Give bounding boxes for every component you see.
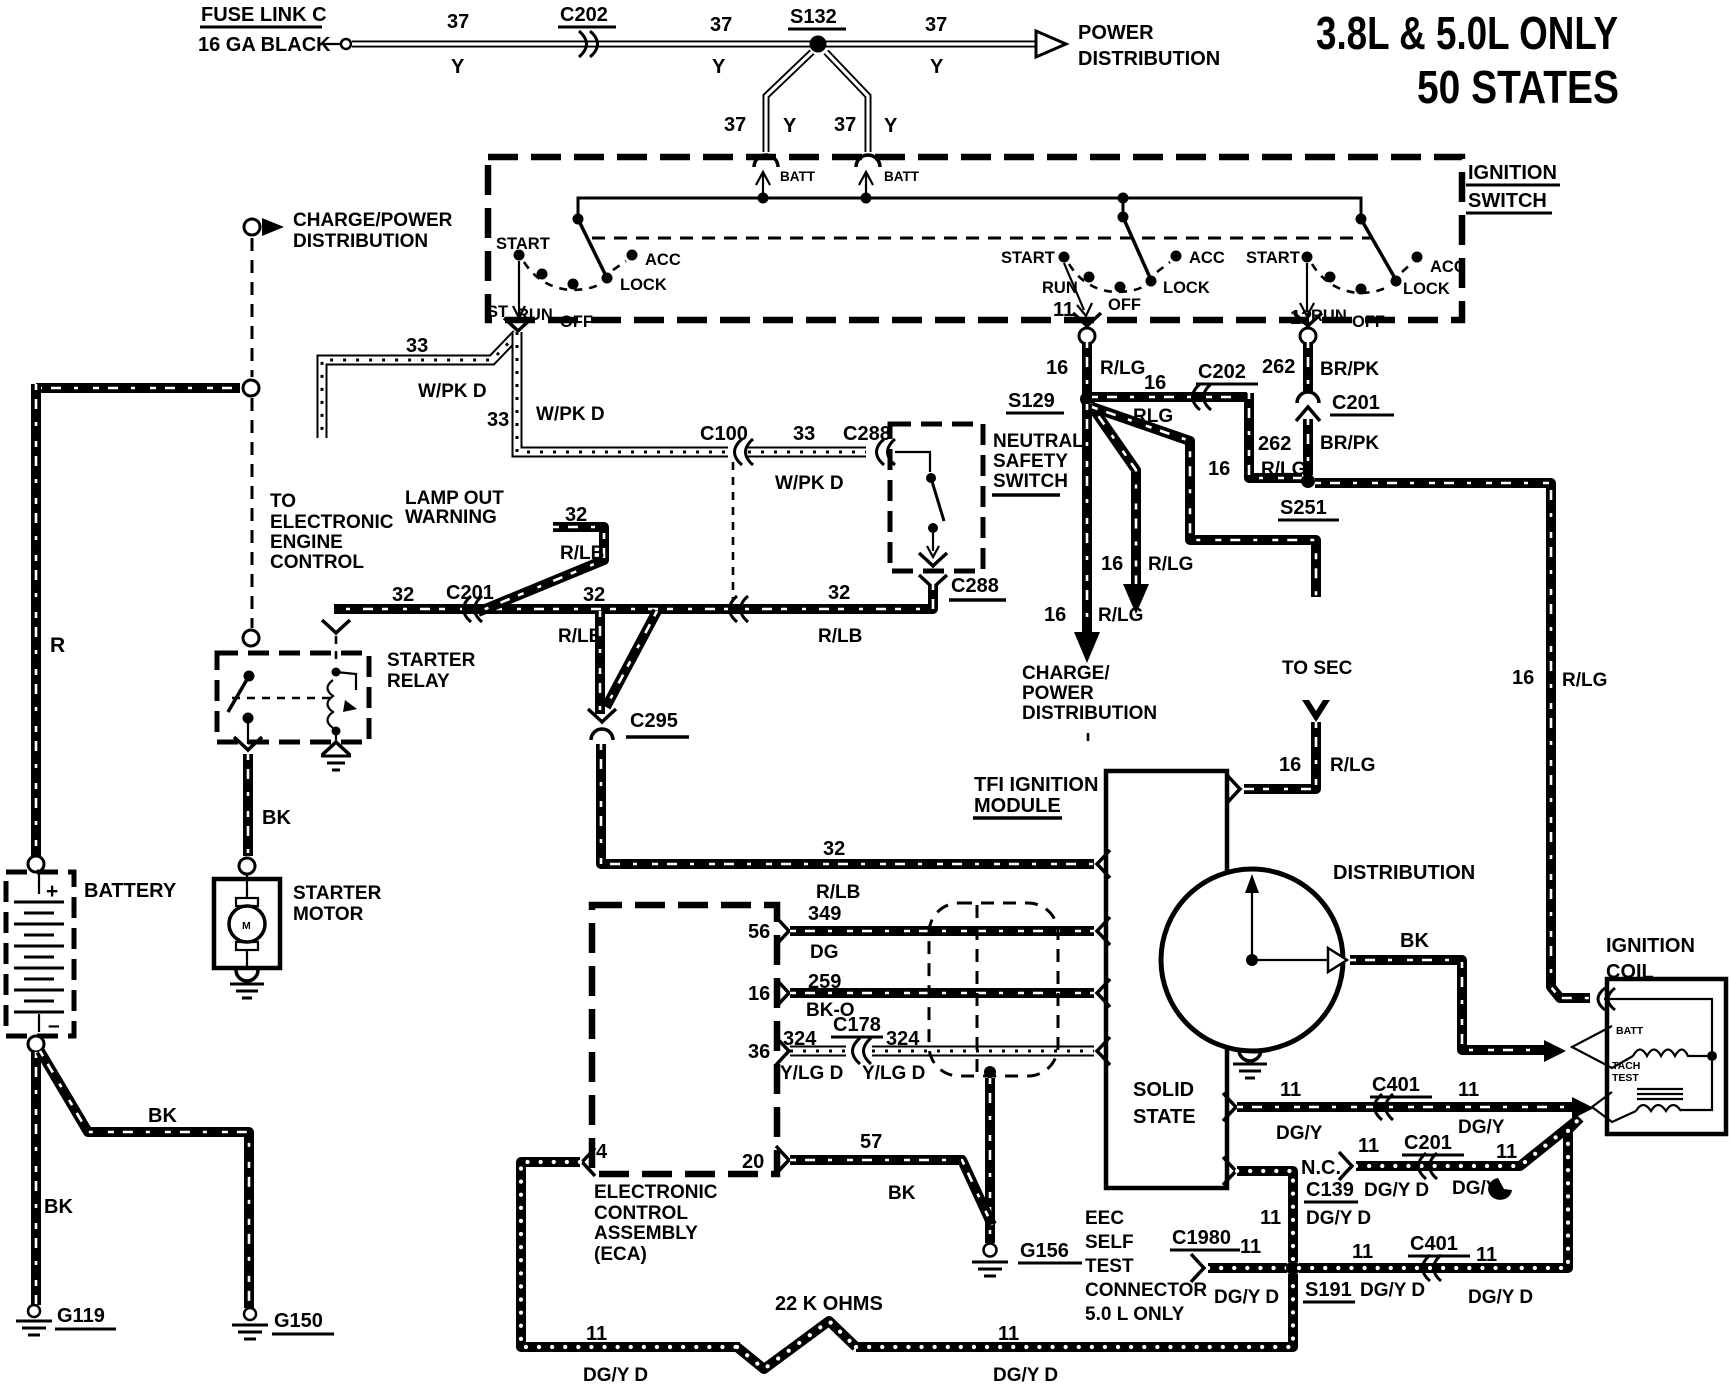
svg-text:ASSEMBLY: ASSEMBLY (594, 1223, 698, 1244)
relay ground (321, 735, 351, 770)
wire 57 BK (776, 1146, 992, 1225)
resistor 22 K OHMS (737, 1321, 856, 1369)
svg-text:+: + (46, 880, 58, 903)
dashed wire to charge/power (251, 238, 254, 377)
relay switch upper contact (244, 671, 255, 682)
neutral safety switch contacts (895, 452, 944, 557)
svg-text:W/PK D: W/PK D (775, 473, 844, 494)
svg-text:R/LG: R/LG (1330, 755, 1375, 776)
wire BK distributor to coil (1350, 960, 1544, 1050)
splice S132 (788, 6, 846, 53)
wire 349 DG (776, 917, 1110, 945)
switch 2 dashed arc (1069, 262, 1170, 292)
wire 33 W/PK D down branch (517, 332, 728, 452)
svg-text:33: 33 (793, 423, 815, 445)
connector C100 (700, 423, 753, 465)
wire 37 Y S132 to BATT right (826, 52, 868, 152)
switch 2 contacts (1059, 251, 1182, 293)
svg-text:M: M (242, 920, 251, 932)
svg-text:IGNITION: IGNITION (1468, 162, 1557, 184)
ground G156 (972, 1244, 1008, 1277)
arrow BK into coil (1544, 1040, 1566, 1062)
connector under switch 2 (1073, 313, 1101, 344)
coil secondary winding (1636, 1105, 1681, 1111)
svg-text:RUN: RUN (1042, 279, 1078, 297)
wire 324 Y/LG D left (776, 1037, 846, 1065)
svg-text:ACC: ACC (1430, 258, 1466, 276)
svg-text:11: 11 (586, 1323, 607, 1345)
svg-text:TFI IGNITION: TFI IGNITION (974, 774, 1098, 796)
wire 37 Y fuse link to power distribution (352, 41, 1038, 48)
svg-text:SELF: SELF (1085, 1232, 1134, 1253)
svg-text:C201: C201 (446, 582, 494, 604)
svg-text:STATE: STATE (1133, 1106, 1196, 1128)
switch 2 START wire (1064, 263, 1092, 316)
svg-text:32: 32 (823, 838, 845, 860)
arrow down to charge power distribution (1074, 632, 1100, 663)
svg-text:NEUTRAL: NEUTRAL (993, 431, 1084, 452)
starter motor box (214, 879, 280, 968)
TFI ignition module box (1106, 771, 1227, 1188)
switch 1 START wire to ST (513, 261, 525, 318)
svg-text:C295: C295 (630, 710, 678, 732)
svg-text:POWER: POWER (1022, 683, 1094, 704)
wire BK relay to starter motor (243, 754, 253, 856)
svg-text:MODULE: MODULE (974, 795, 1061, 817)
svg-text:11: 11 (1358, 1135, 1379, 1157)
svg-text:262: 262 (1258, 433, 1291, 455)
svg-text:FUSE LINK C: FUSE LINK C (201, 4, 327, 26)
svg-text:DISTRIBUTION: DISTRIBUTION (1022, 703, 1157, 724)
svg-text:16: 16 (1101, 553, 1123, 575)
svg-text:259: 259 (808, 971, 841, 993)
svg-text:WARNING: WARNING (405, 507, 497, 528)
svg-text:BK: BK (888, 1183, 916, 1204)
label CHARGE/POWER DISTRIBUTION (293, 210, 453, 252)
svg-text:16: 16 (1046, 357, 1068, 379)
svg-text:349: 349 (808, 903, 841, 925)
svg-text:5.0 L ONLY: 5.0 L ONLY (1085, 1304, 1185, 1325)
wire 16 R/LG S251 to ignition coil (1315, 483, 1590, 998)
label C139 (1304, 1179, 1358, 1202)
ignition coil box (1607, 979, 1726, 1134)
label POWER DISTRIBUTION (1078, 22, 1220, 70)
connector C288 below switch (919, 553, 1006, 600)
wire 11 DG/Y solid state to coil (1237, 1102, 1574, 1112)
connector wire 32 to relay (322, 620, 350, 666)
distributor ground (1233, 1050, 1267, 1078)
svg-text:R/LB: R/LB (816, 882, 860, 903)
label TO ELECTRONIC ENGINE CONTROL (270, 491, 394, 573)
label STARTER MOTOR (293, 883, 382, 925)
svg-text:37: 37 (447, 11, 469, 33)
wire R vertical (31, 384, 41, 856)
label IGNITION SWITCH (1466, 162, 1560, 213)
connector under switch 3 (1294, 313, 1322, 344)
wire 16 R/LG from ignition switch 11 (1082, 342, 1092, 394)
svg-text:BK: BK (148, 1105, 177, 1127)
svg-text:DISTRIBUTION: DISTRIBUTION (1078, 48, 1220, 70)
svg-text:EEC: EEC (1085, 1208, 1124, 1229)
svg-text:Y: Y (451, 56, 465, 78)
svg-text:33: 33 (487, 409, 509, 431)
svg-text:MOTOR: MOTOR (293, 904, 364, 925)
svg-text:CHARGE/: CHARGE/ (1022, 663, 1110, 684)
svg-text:DG/Y D: DG/Y D (1306, 1208, 1371, 1229)
svg-text:R/LB: R/LB (818, 626, 862, 647)
connector at BATT right (856, 155, 880, 167)
wire 16 R/LG C202 to S251 (1249, 393, 1302, 478)
switch 3 START wire (1300, 263, 1314, 316)
connector C201 (446, 582, 494, 622)
coil primary winding (1633, 1050, 1707, 1057)
wire 11 DG/Y D S191 to coil (1299, 1118, 1580, 1268)
svg-text:R/LG: R/LG (1100, 358, 1145, 379)
switch 3 pivot (1356, 214, 1367, 225)
svg-text:BATT: BATT (780, 169, 816, 184)
connector relay output (234, 737, 262, 750)
svg-text:C288: C288 (843, 423, 891, 445)
wire 37 Y S132 to BATT left (766, 52, 812, 152)
wire 32 to C295 (595, 611, 605, 714)
wire BK to G156 (985, 1078, 995, 1243)
svg-text:BATTERY: BATTERY (84, 880, 177, 902)
svg-text:11: 11 (1352, 1241, 1373, 1263)
svg-text:R: R (50, 634, 65, 657)
svg-text:(ECA): (ECA) (594, 1244, 647, 1265)
label CHARGE/POWER DISTRIBUTION (1022, 663, 1157, 746)
wire 16 R/LG S129 main down (1082, 404, 1092, 634)
svg-text:SOLID: SOLID (1133, 1079, 1194, 1101)
label SOLID STATE (1133, 1079, 1196, 1128)
battery box (6, 872, 74, 1036)
svg-text:TEST: TEST (1085, 1256, 1134, 1277)
connector C201 (1402, 1132, 1464, 1179)
svg-text:CONNECTOR: CONNECTOR (1085, 1280, 1207, 1301)
svg-text:START: START (1001, 249, 1055, 267)
svg-text:22 K OHMS: 22 K OHMS (775, 1293, 883, 1315)
wire 11 DG/Y D bottom right (856, 1274, 1293, 1347)
svg-text:DG/Y: DG/Y (1276, 1123, 1323, 1144)
svg-text:DG/Y D: DG/Y D (993, 1365, 1058, 1386)
title 3.8L and 5.0L ONLY 50 STATES (1316, 7, 1619, 113)
svg-text:TO SEC: TO SEC (1282, 658, 1353, 679)
svg-text:R/LB: R/LB (560, 543, 604, 564)
svg-text:DG/Y D: DG/Y D (1214, 1287, 1279, 1308)
svg-text:DG/Y: DG/Y (1458, 1117, 1505, 1138)
wire 259 BK-O (776, 979, 1110, 1007)
distributor rotor hands (1245, 874, 1347, 972)
ECA box (592, 905, 777, 1174)
svg-text:DISTRIBUTION: DISTRIBUTION (1333, 862, 1475, 884)
coil TACH terminal (1592, 1092, 1636, 1122)
svg-text:Y/LG D: Y/LG D (780, 1063, 843, 1084)
starter motor symbol (229, 874, 265, 950)
connector chevron on wire 32 (730, 596, 749, 622)
svg-text:16: 16 (1144, 372, 1166, 394)
svg-text:ELECTRONIC: ELECTRONIC (594, 1182, 718, 1203)
svg-text:ACC: ACC (1189, 249, 1225, 267)
solid state pin 11 DG/Y (1223, 1093, 1236, 1121)
svg-text:DG/Y D: DG/Y D (1364, 1180, 1429, 1201)
wire BK battery to G150 (40, 1051, 249, 1308)
svg-text:TEST: TEST (1612, 1072, 1639, 1084)
svg-text:324: 324 (783, 1028, 817, 1050)
svg-text:C100: C100 (700, 423, 748, 445)
svg-text:32: 32 (828, 582, 850, 604)
coil BATT terminal (1572, 1026, 1633, 1068)
svg-text:–: – (48, 1014, 60, 1037)
arrow DG/Y into coil (1572, 1097, 1594, 1119)
connector into neutral safety switch (877, 439, 896, 465)
svg-text:C401: C401 (1410, 1233, 1458, 1255)
distributor circle (1161, 869, 1343, 1051)
neutral safety switch box (890, 424, 983, 571)
starter relay box (217, 653, 369, 742)
label FUSE LINK C (200, 4, 327, 27)
node battery negative ring (28, 1036, 44, 1052)
switch 1 contacts START RUN OFF LOCK ACC (514, 250, 638, 290)
wire 33 W/PK D left branch (322, 334, 517, 438)
svg-text:32: 32 (583, 584, 605, 606)
svg-text:START: START (1246, 249, 1300, 267)
svg-text:BATT: BATT (1616, 1025, 1644, 1037)
svg-text:BK: BK (1400, 930, 1429, 952)
svg-text:LOCK: LOCK (1403, 280, 1450, 298)
connector C1980 (1170, 1227, 1240, 1282)
svg-text:37: 37 (834, 114, 856, 136)
connector C401 (1370, 1074, 1432, 1120)
svg-text:TACH: TACH (1612, 1060, 1640, 1072)
svg-text:11: 11 (1280, 1079, 1301, 1101)
svg-text:50 STATES: 50 STATES (1417, 61, 1619, 113)
svg-text:CHARGE/POWER: CHARGE/POWER (293, 210, 453, 231)
svg-text:POWER: POWER (1078, 22, 1154, 44)
relay switch lower contact (243, 713, 254, 724)
svg-text:11: 11 (1240, 1236, 1261, 1258)
wire 11 DG/Y D N.C. stub (1339, 1121, 1576, 1180)
svg-text:36: 36 (748, 1041, 770, 1063)
svg-text:OFF: OFF (560, 313, 593, 331)
svg-text:20: 20 (742, 1151, 764, 1173)
switch 3 contacts (1302, 252, 1423, 295)
svg-text:11: 11 (1476, 1244, 1497, 1266)
svg-text:W/PK D: W/PK D (418, 381, 487, 402)
relay switch blade (228, 676, 249, 712)
wire 11 DG/Y D C1980 to S191 (1208, 1263, 1287, 1273)
svg-text:Y: Y (783, 115, 797, 137)
svg-text:ENGINE: ENGINE (270, 532, 343, 553)
connector C201 (1296, 392, 1394, 421)
connector oval (929, 903, 1058, 1076)
svg-text:56: 56 (748, 921, 770, 943)
label LAMP OUT WARNING (405, 488, 504, 528)
svg-text:11: 11 (1260, 1207, 1281, 1229)
svg-text:OFF: OFF (1352, 313, 1385, 331)
svg-text:SWITCH: SWITCH (993, 471, 1068, 492)
svg-text:CONTROL: CONTROL (270, 552, 364, 573)
svg-text:Y: Y (884, 115, 898, 137)
svg-text:BK: BK (44, 1196, 73, 1218)
svg-text:C201: C201 (1404, 1132, 1452, 1154)
svg-text:262: 262 (1262, 356, 1295, 378)
coil internal frame (1604, 999, 1717, 1110)
coil core lines (1637, 1089, 1683, 1099)
label NEUTRAL SAFETY SWITCH (992, 431, 1084, 495)
dashed line inside switch (592, 237, 1373, 240)
connector TO SEC (1302, 700, 1330, 722)
svg-text:SWITCH: SWITCH (1468, 190, 1547, 212)
wire 16 R/LG S129 branch to arrow (1090, 404, 1136, 586)
wire 32 R/LB lamp out stub (478, 527, 604, 612)
svg-text:LOCK: LOCK (620, 276, 667, 294)
wire 32 R/LB main (334, 584, 933, 609)
svg-text:32: 32 (565, 504, 587, 526)
dashed connector line C100 (732, 462, 735, 600)
ground G150 (232, 1308, 268, 1339)
relay dashed link (232, 697, 330, 700)
connector under switch 1 (504, 318, 532, 331)
svg-text:BATT: BATT (884, 169, 920, 184)
label EEC SELF TEST CONNECTOR 5.0 L ONLY (1085, 1208, 1207, 1325)
splice S191 (1286, 1261, 1355, 1302)
node charge/power distribution arrow (244, 218, 284, 236)
svg-text:ACC: ACC (645, 251, 681, 269)
wire 262 BR/PK C201 to S251 (1303, 419, 1313, 475)
svg-text:11: 11 (998, 1323, 1019, 1345)
connector at TFI right pin (1227, 775, 1240, 803)
label G119 (55, 1305, 116, 1329)
wire 16 R/LG TO SEC to TFI (1244, 722, 1316, 789)
label G156 (1018, 1240, 1082, 1263)
svg-text:ELECTRONIC: ELECTRONIC (270, 512, 394, 533)
connector C401 (1408, 1233, 1470, 1281)
node ring at starter motor (239, 858, 255, 874)
wire 11 DG/Y D C139 to S191 (1237, 1171, 1293, 1262)
svg-text:R/LG: R/LG (1562, 670, 1607, 691)
svg-text:STARTER: STARTER (387, 650, 476, 671)
node ring at relay (243, 630, 259, 646)
svg-text:Y: Y (712, 56, 726, 78)
svg-text:S132: S132 (790, 6, 837, 28)
label DG/Y D blob (1452, 1178, 1512, 1200)
dashed wire to starter relay (251, 398, 254, 628)
svg-text:C178: C178 (833, 1014, 881, 1036)
svg-text:3.8L & 5.0L ONLY: 3.8L & 5.0L ONLY (1316, 7, 1618, 59)
svg-text:STARTER: STARTER (293, 883, 382, 904)
svg-text:BR/PK: BR/PK (1320, 359, 1379, 380)
svg-text:C288: C288 (951, 575, 999, 597)
svg-text:G119: G119 (57, 1305, 105, 1327)
svg-text:RELAY: RELAY (387, 671, 450, 692)
arrow down charge branch (1123, 584, 1149, 614)
svg-text:11: 11 (1496, 1141, 1517, 1163)
relay lower lead (247, 723, 249, 744)
label G150 (272, 1310, 334, 1334)
label TACH TEST (1612, 1060, 1640, 1084)
svg-text:C201: C201 (1332, 392, 1380, 414)
BATT terminal right (859, 169, 920, 204)
svg-text:S251: S251 (1280, 497, 1327, 519)
ignition switch bus wire (578, 198, 1361, 216)
svg-text:TO: TO (270, 491, 296, 512)
wire 324 Y/LG D right (872, 1037, 1110, 1065)
svg-text:C401: C401 (1372, 1074, 1420, 1096)
splice S129 (1006, 390, 1094, 413)
svg-text:37: 37 (925, 14, 947, 36)
wire 32 diagonal from C288 side (606, 611, 657, 707)
connector C202 (1193, 361, 1259, 410)
svg-text:Y: Y (930, 56, 944, 78)
label TFI IGNITION MODULE (973, 774, 1098, 818)
svg-text:Y/LG D: Y/LG D (862, 1063, 925, 1084)
svg-text:16: 16 (1044, 604, 1066, 626)
svg-text:16 GA BLACK: 16 GA BLACK (198, 34, 331, 56)
splice S251 (1278, 474, 1339, 520)
svg-text:16: 16 (1208, 458, 1230, 480)
svg-text:4: 4 (596, 1141, 608, 1163)
node battery positive ring (28, 856, 44, 872)
svg-text:LOCK: LOCK (1163, 279, 1210, 297)
switch 3 blade (1361, 219, 1396, 280)
svg-text:RUN: RUN (517, 306, 553, 324)
node junction on 324 (984, 1066, 996, 1078)
svg-text:R/LG: R/LG (1098, 605, 1143, 626)
connector at BATT left (754, 155, 778, 167)
ignition switch box (488, 157, 1462, 320)
solid state pin C139 (1223, 1157, 1236, 1185)
svg-text:IGNITION: IGNITION (1606, 935, 1695, 957)
connector C178 (831, 1014, 883, 1064)
svg-text:BK: BK (262, 807, 291, 829)
svg-text:16: 16 (748, 983, 770, 1005)
svg-text:33: 33 (406, 335, 428, 357)
node ring junction (243, 380, 259, 396)
svg-text:BR/PK: BR/PK (1320, 433, 1379, 454)
svg-text:16: 16 (1512, 667, 1534, 689)
svg-text:C202: C202 (1198, 361, 1246, 383)
label 16 GA BLACK (198, 34, 351, 56)
svg-text:C202: C202 (560, 4, 608, 26)
svg-text:DG/Y D: DG/Y D (1360, 1280, 1425, 1301)
svg-text:57: 57 (860, 1131, 882, 1153)
svg-text:DG: DG (810, 942, 839, 963)
switch 1 blade (578, 219, 606, 276)
switch 2 drop from bus (1118, 193, 1129, 223)
svg-text:N.C.: N.C. (1301, 1157, 1341, 1179)
BATT terminal left (756, 169, 816, 204)
wire 16 RLG S129 to C202 (1092, 392, 1247, 402)
svg-text:32: 32 (392, 584, 414, 606)
connector C295 (588, 709, 689, 740)
label STARTER RELAY (387, 650, 476, 692)
svg-text:R/LG: R/LG (1148, 554, 1193, 575)
relay coil (328, 668, 358, 736)
wire 11 DG/Y D pin4 loop (521, 1148, 740, 1347)
svg-text:OFF: OFF (1108, 296, 1141, 314)
connector into coil BATT (1598, 988, 1615, 1010)
svg-text:37: 37 (724, 114, 746, 136)
svg-text:G150: G150 (274, 1310, 323, 1332)
svg-text:W/PK D: W/PK D (536, 404, 605, 425)
svg-text:11: 11 (1053, 299, 1074, 321)
svg-text:START: START (496, 235, 550, 253)
wire BK battery to G119 (31, 1052, 41, 1305)
wire R horizontal (36, 383, 240, 393)
switch 3 dashed arc (1312, 263, 1412, 293)
svg-text:LAMP OUT: LAMP OUT (405, 488, 504, 509)
label IGNITION COIL (1606, 935, 1695, 983)
